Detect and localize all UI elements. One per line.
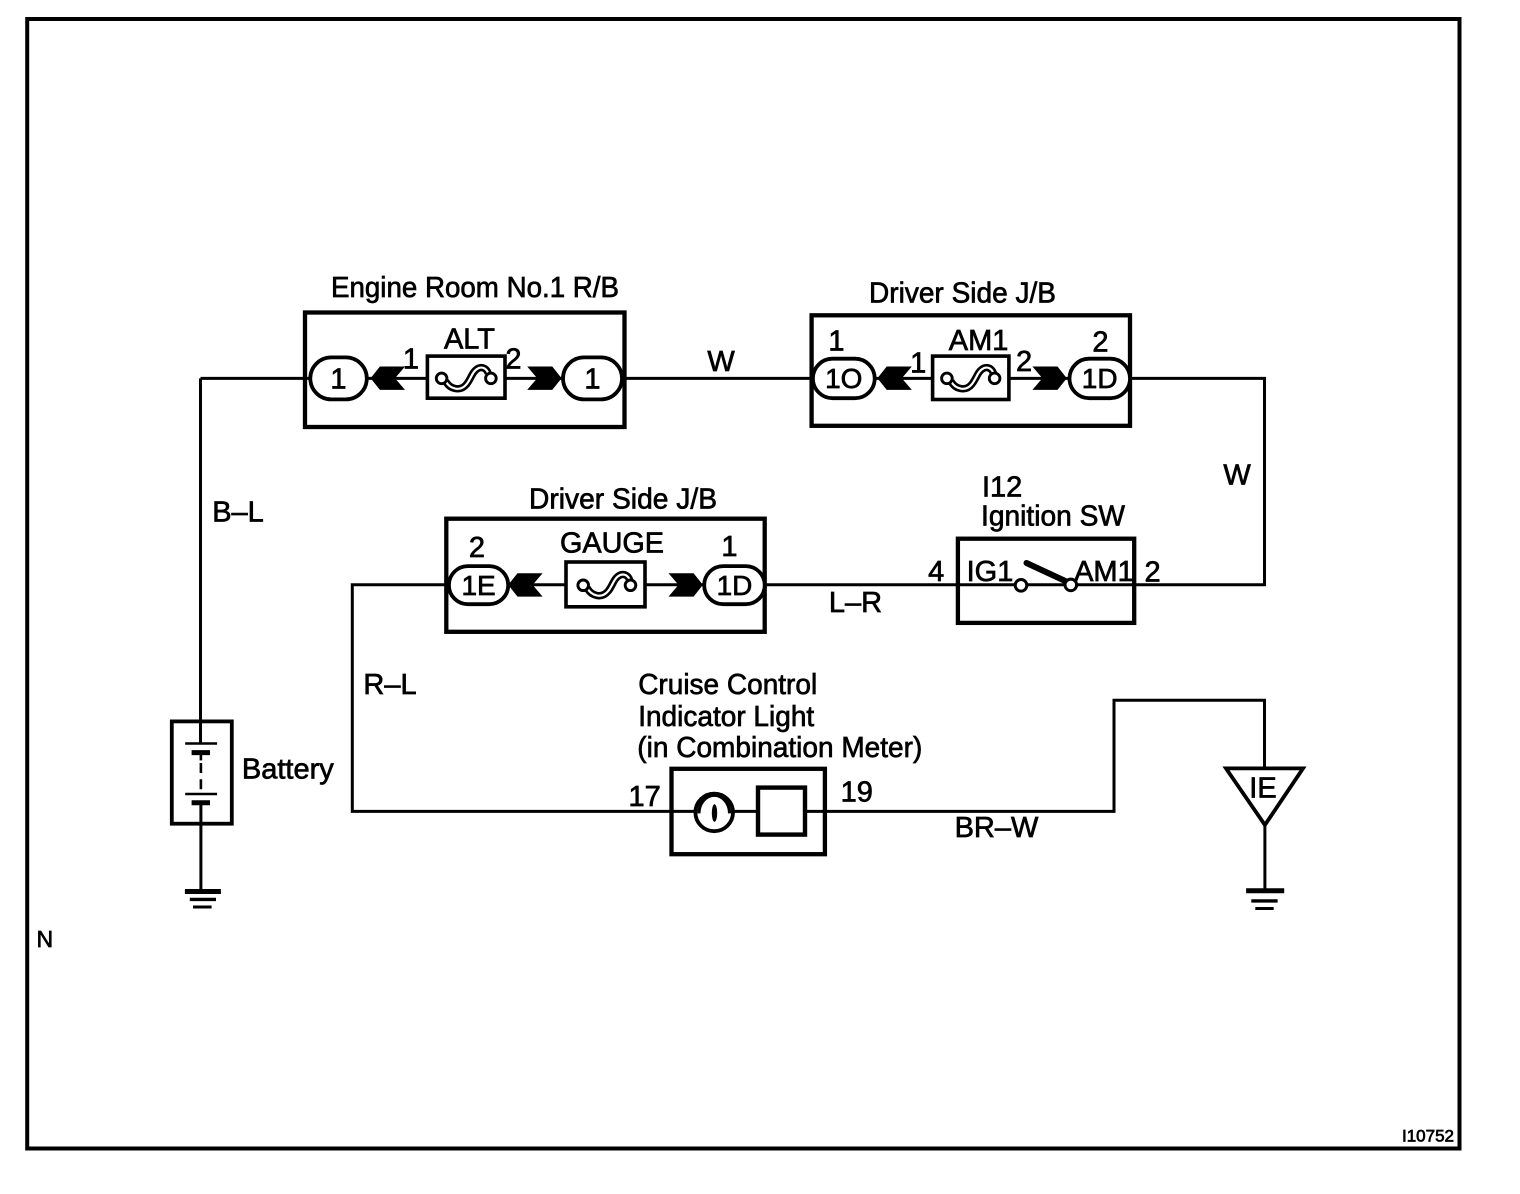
svg-text:1: 1 <box>330 364 346 396</box>
svg-text:L–R: L–R <box>829 587 882 619</box>
svg-text:2: 2 <box>469 532 485 564</box>
svg-text:2: 2 <box>1092 327 1108 359</box>
wire battery positive feed <box>199 378 202 743</box>
svg-text:2: 2 <box>1145 557 1161 589</box>
switch contact IG1 <box>1015 580 1027 592</box>
switch contact AM1 <box>1065 579 1077 591</box>
svg-text:Battery: Battery <box>242 754 334 786</box>
svg-text:2: 2 <box>1016 346 1032 378</box>
connector oval 1 (engine room R/B left) <box>310 357 367 399</box>
bulb symbol <box>695 794 733 832</box>
connector oval 1D (driver side J/B top) <box>1070 359 1131 399</box>
svg-text:N: N <box>37 926 54 952</box>
wire main run B+ rail to ignition, gauge, cruise light and IE node <box>201 378 1265 811</box>
battery negative plate <box>192 800 210 805</box>
svg-text:Ignition SW: Ignition SW <box>981 500 1126 532</box>
svg-text:1: 1 <box>403 344 419 376</box>
svg-text:1D: 1D <box>717 570 753 601</box>
svg-text:2: 2 <box>505 344 521 376</box>
arrow left toward oval 1O <box>877 367 911 390</box>
lamp Cruise Control Indicator Light body <box>672 769 825 854</box>
arrow right toward oval 1 <box>527 367 561 390</box>
svg-text:1: 1 <box>828 326 844 358</box>
svg-text:Engine Room No.1 R/B: Engine Room No.1 R/B <box>331 272 619 304</box>
connector IE triangle <box>1226 768 1303 825</box>
svg-text:1D: 1D <box>1082 363 1118 394</box>
svg-text:GAUGE: GAUGE <box>560 528 664 560</box>
svg-text:Cruise Control: Cruise Control <box>638 669 817 701</box>
svg-text:1: 1 <box>721 531 737 563</box>
arrow left toward oval 1 <box>371 367 405 390</box>
svg-text:AM1: AM1 <box>949 325 1009 357</box>
fuse ALT <box>427 356 505 398</box>
svg-text:BR–W: BR–W <box>955 812 1039 844</box>
svg-text:IG1: IG1 <box>967 556 1014 588</box>
svg-text:1: 1 <box>584 364 600 396</box>
svg-text:Indicator Light: Indicator Light <box>638 701 814 733</box>
svg-text:AM1: AM1 <box>1074 556 1134 588</box>
svg-text:19: 19 <box>841 777 873 809</box>
svg-text:17: 17 <box>628 781 660 813</box>
svg-text:R–L: R–L <box>363 669 416 701</box>
svg-text:ALT: ALT <box>444 324 495 356</box>
connector oval 1D (gauge) <box>704 566 765 604</box>
fuse AM1 <box>933 356 1009 399</box>
svg-text:4: 4 <box>928 556 944 588</box>
battery positive plate <box>185 742 217 745</box>
arrow left toward oval 1E <box>508 573 542 596</box>
junction block Driver Side J/B (top) <box>812 315 1130 426</box>
connector oval 1E <box>449 566 508 604</box>
svg-text:1O: 1O <box>825 363 862 394</box>
battery body <box>172 721 232 823</box>
connector oval 1O <box>813 359 875 399</box>
svg-text:B–L: B–L <box>212 497 264 529</box>
svg-text:Driver Side J/B: Driver Side J/B <box>529 484 717 516</box>
fuse GAUGE <box>566 562 645 607</box>
svg-text:IE: IE <box>1249 773 1276 805</box>
switch lever <box>1027 563 1069 583</box>
svg-text:W: W <box>1223 460 1251 492</box>
svg-text:W: W <box>707 346 735 378</box>
svg-text:I10752: I10752 <box>1402 1127 1454 1146</box>
svg-text:1: 1 <box>910 348 926 380</box>
resistor block (square) <box>758 788 805 835</box>
switch I12 Ignition SW body <box>958 539 1134 623</box>
ground (IE) <box>1246 888 1284 893</box>
battery dashed cell link <box>200 763 203 790</box>
svg-text:I12: I12 <box>982 471 1022 503</box>
junction block Driver Side J/B (gauge) <box>446 519 764 632</box>
svg-text:(in Combination Meter): (in Combination Meter) <box>637 732 922 764</box>
svg-text:Driver Side J/B: Driver Side J/B <box>869 278 1056 310</box>
battery positive plate (lower cell) <box>185 793 217 796</box>
ground (battery) <box>185 889 221 894</box>
connector oval 1 (engine room R/B right) <box>563 357 622 399</box>
wire battery negative to ground <box>199 803 202 892</box>
arrow right toward oval 1D <box>1032 367 1066 390</box>
junction block Engine Room No.1 R/B <box>305 313 625 428</box>
wire IE connector to ground <box>1263 825 1266 891</box>
arrow right toward oval 1D <box>669 573 703 596</box>
battery negative plate (upper cell) <box>192 750 210 755</box>
svg-text:1E: 1E <box>461 570 495 601</box>
battery cell stub <box>200 753 203 761</box>
